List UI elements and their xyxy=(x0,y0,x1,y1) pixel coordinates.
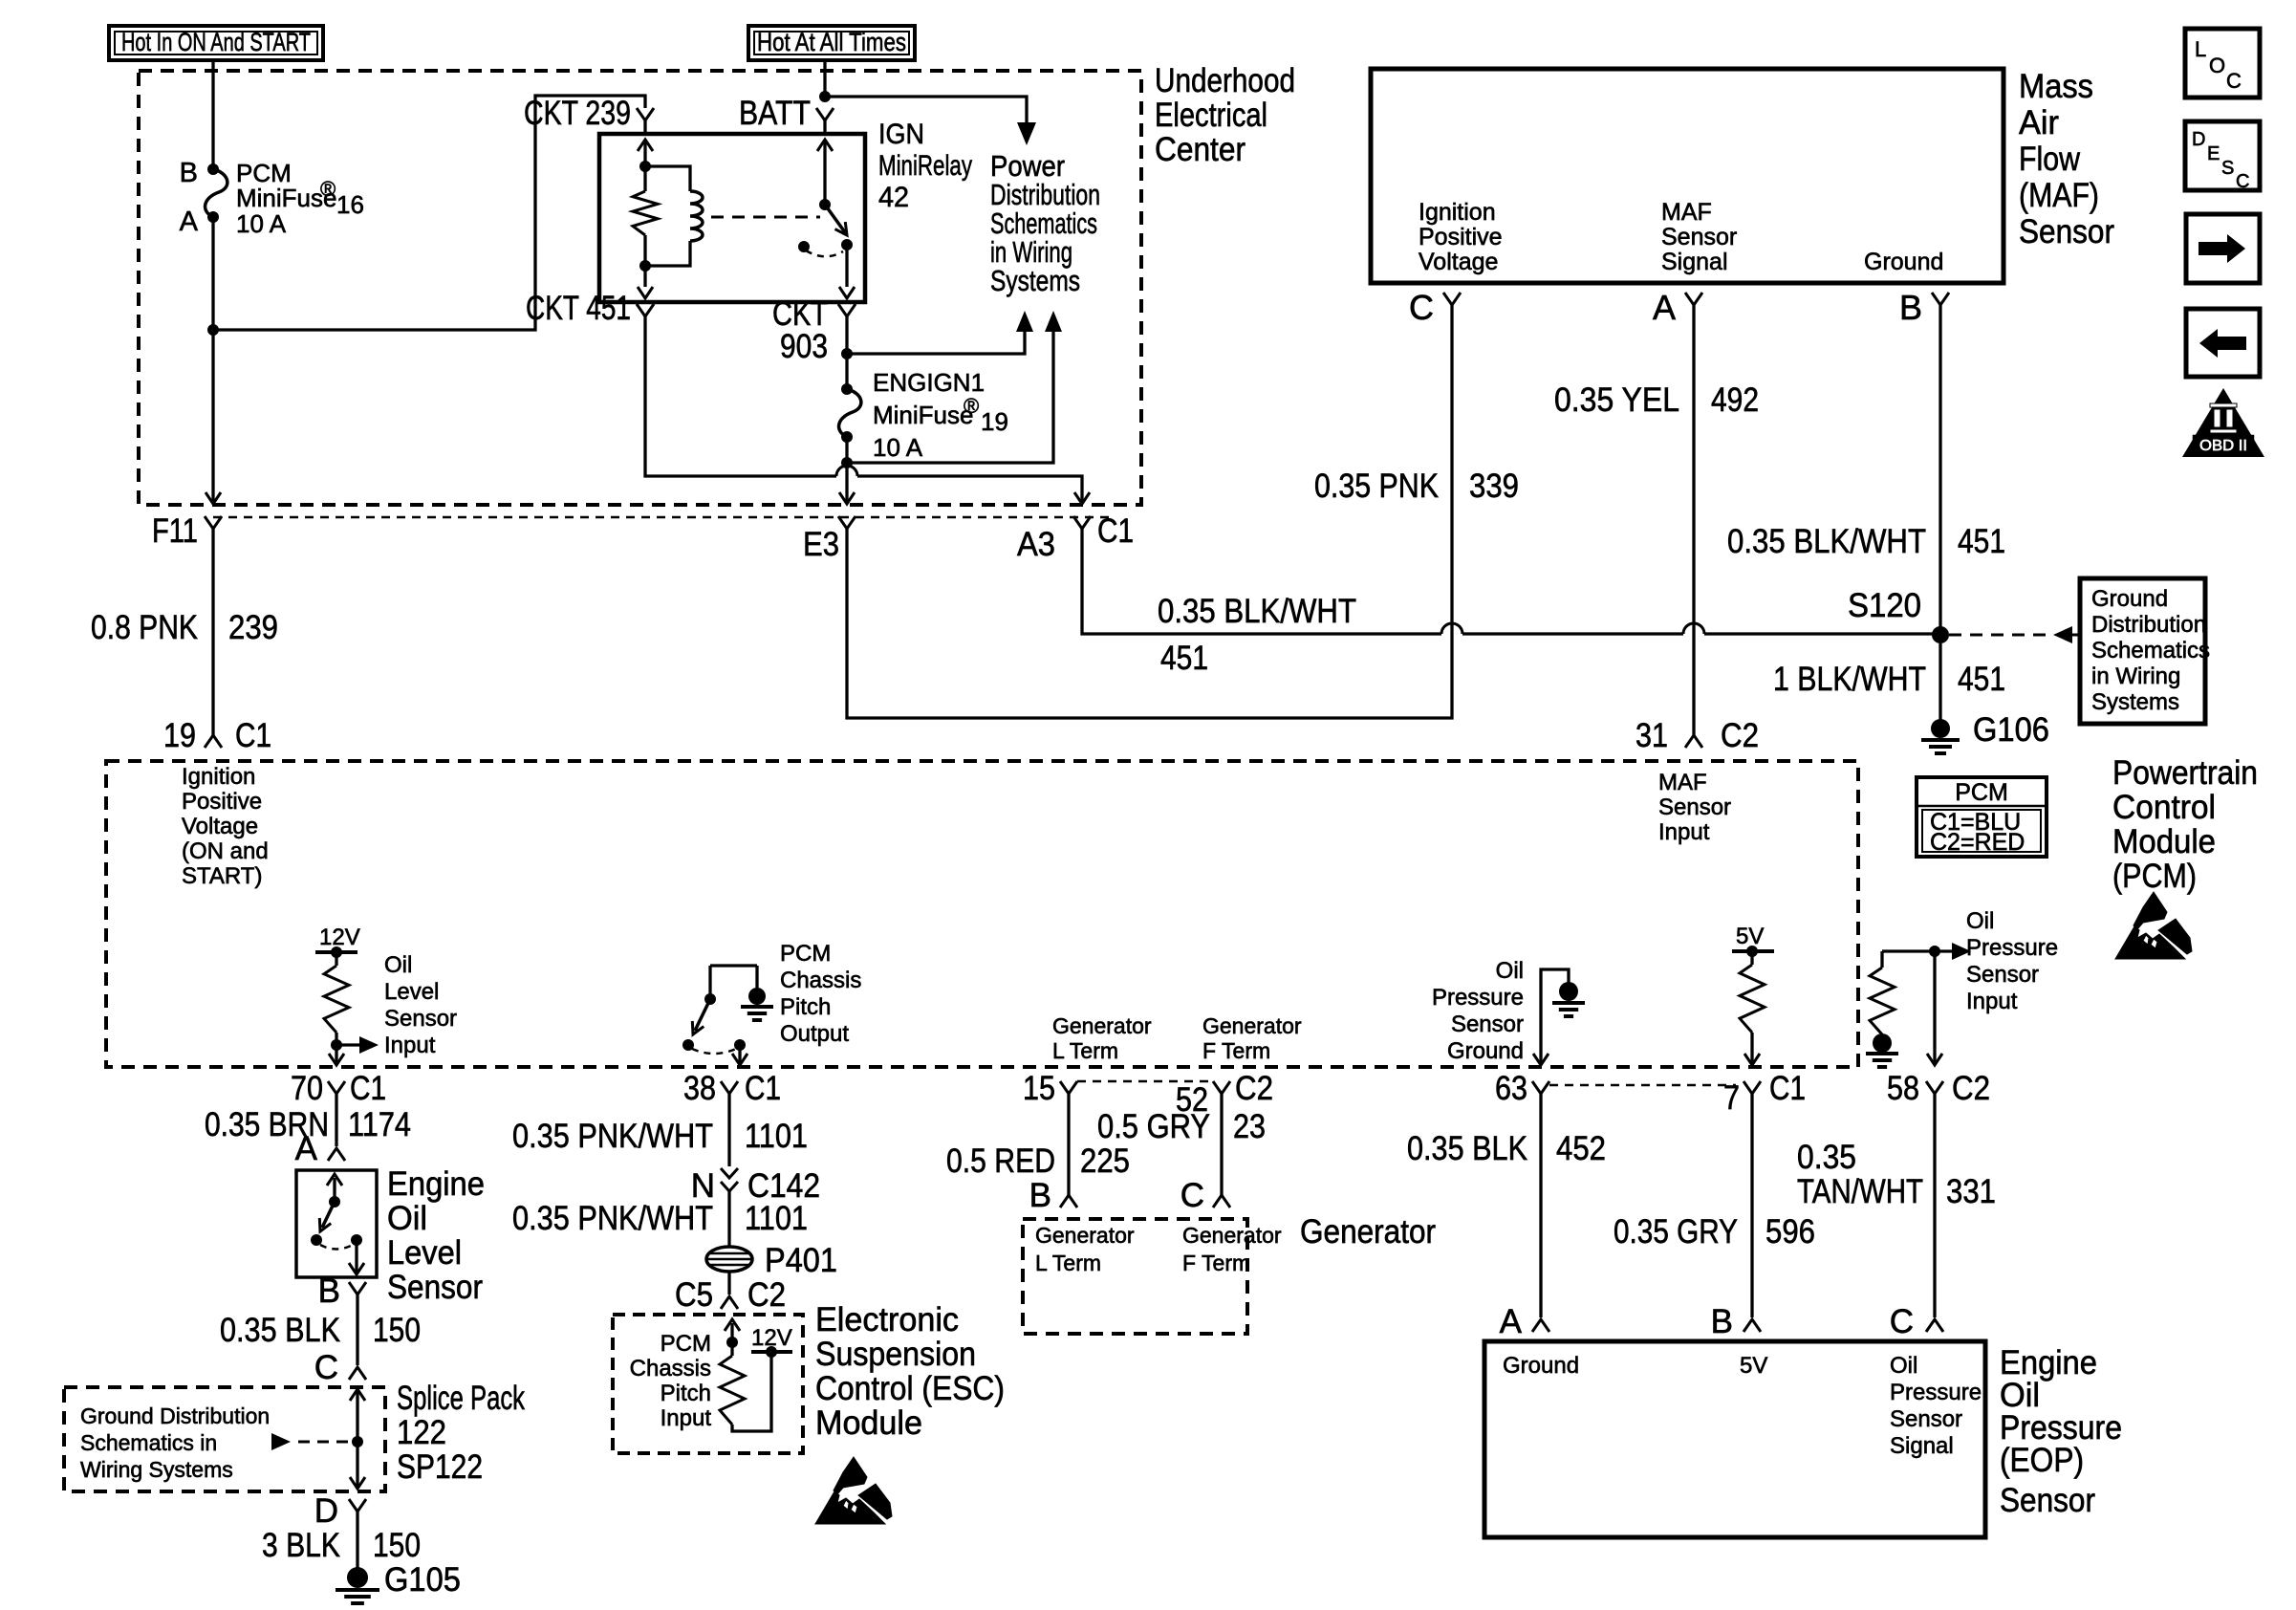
MAF terminal C Y xyxy=(1443,293,1461,305)
svg-text:S120: S120 xyxy=(1848,587,1921,624)
wire: MAF A yellow wire down to PCM pin 31 xyxy=(1692,317,1695,735)
oil pressure input ground dot xyxy=(1873,1033,1892,1053)
svg-text:12V: 12V xyxy=(751,1325,792,1351)
svg-text:3 BLK: 3 BLK xyxy=(262,1527,340,1564)
relay coil top dot xyxy=(639,161,651,172)
svg-text:225: 225 xyxy=(1080,1142,1130,1180)
esc input resistor xyxy=(720,1356,745,1425)
MAF terminal A Y xyxy=(1685,293,1702,305)
svg-text:(MAF): (MAF) xyxy=(2019,177,2099,214)
svg-text:Control (ESC): Control (ESC) xyxy=(815,1370,1005,1407)
svg-text:P401: P401 xyxy=(765,1242,837,1279)
wire: down to E3 xyxy=(845,463,848,503)
junction dot on BATT feed xyxy=(819,91,831,102)
svg-text:Ground: Ground xyxy=(1864,249,1943,275)
pitch switch blade xyxy=(695,999,710,1031)
wire: branch to Power Distribution right arrow xyxy=(847,332,1053,463)
fuse F19 terminal dot A xyxy=(841,431,853,443)
oil level dashed travel arc xyxy=(320,1245,353,1250)
svg-text:Ground: Ground xyxy=(2091,586,2168,612)
icon OBD II triangle xyxy=(2182,388,2264,457)
svg-text:A: A xyxy=(1500,1303,1523,1340)
svg-text:Pressure: Pressure xyxy=(1890,1380,1982,1405)
svg-text:A: A xyxy=(295,1130,318,1167)
svg-text:70: 70 xyxy=(291,1070,323,1107)
svg-text:TAN/WHT: TAN/WHT xyxy=(1797,1173,1923,1210)
wire: junction to CKT 239 (up and over) xyxy=(213,96,645,330)
svg-text:1101: 1101 xyxy=(745,1118,808,1155)
wire pin70 to oil level sensor xyxy=(335,1107,337,1146)
svg-text:®: ® xyxy=(964,394,979,418)
svg-text:C1: C1 xyxy=(235,717,271,754)
oil level output wire xyxy=(355,1240,357,1273)
pin 15 Y xyxy=(1060,1081,1077,1094)
connector dashes 15-52 xyxy=(1077,1080,1213,1083)
filled arrow down to Power Distribution xyxy=(1017,122,1036,145)
svg-text:D: D xyxy=(314,1492,338,1530)
svg-text:Ground: Ground xyxy=(1503,1353,1579,1379)
svg-text:Generator: Generator xyxy=(1202,1013,1302,1038)
svg-text:B: B xyxy=(180,158,198,188)
svg-text:C1: C1 xyxy=(1769,1070,1806,1107)
svg-text:Center: Center xyxy=(1155,131,1245,168)
svg-text:Suspension: Suspension xyxy=(815,1336,976,1373)
PCM chassis pitch switch top link xyxy=(710,964,757,967)
svg-text:0.35 PNK: 0.35 PNK xyxy=(1314,468,1439,505)
svg-text:G106: G106 xyxy=(1973,711,2049,749)
oil level pullup resistor xyxy=(335,952,337,966)
svg-text:Chassis: Chassis xyxy=(630,1356,711,1382)
pin B lambda (eop) xyxy=(1744,1319,1761,1332)
ground G106 dot xyxy=(1931,719,1950,738)
pin C lambda (eop) xyxy=(1926,1319,1943,1332)
svg-text:903: 903 xyxy=(780,328,828,365)
wire pin63 to EOP A xyxy=(1539,1107,1542,1317)
svg-text:451: 451 xyxy=(1958,523,2005,560)
icon LOC box xyxy=(2185,29,2260,98)
MAF terminal B Y xyxy=(1932,293,1949,305)
svg-text:Sensor: Sensor xyxy=(387,1269,483,1306)
svg-text:Ground: Ground xyxy=(1447,1038,1524,1064)
svg-text:Electrical: Electrical xyxy=(1155,97,1267,134)
svg-text:A: A xyxy=(1653,288,1676,327)
wire: Hot At All Times feed xyxy=(823,60,826,97)
svg-text:Distribution: Distribution xyxy=(2091,612,2206,638)
splice dashed link xyxy=(298,1441,350,1444)
svg-text:451: 451 xyxy=(1958,661,2005,698)
svg-text:12V: 12V xyxy=(319,925,360,950)
pin C5 lambda xyxy=(721,1296,738,1309)
svg-text:1101: 1101 xyxy=(745,1200,808,1237)
svg-text:Ignition: Ignition xyxy=(182,764,255,790)
wire oil level B to C xyxy=(356,1306,358,1365)
svg-text:BATT: BATT xyxy=(739,95,811,132)
svg-text:63: 63 xyxy=(1495,1070,1527,1107)
svg-text:Ignition: Ignition xyxy=(1419,199,1496,226)
relay switch travel dashed arc xyxy=(806,250,843,256)
svg-text:MAF: MAF xyxy=(1661,199,1712,226)
svg-text:Pitch: Pitch xyxy=(661,1381,711,1406)
svg-text:L: L xyxy=(2195,37,2206,61)
relay switch blade xyxy=(825,205,845,232)
junction dot below fuse 19 xyxy=(841,457,853,468)
dashed stub into box xyxy=(2072,634,2080,637)
svg-text:C5: C5 xyxy=(675,1276,713,1314)
svg-text:239: 239 xyxy=(228,609,278,646)
svg-text:339: 339 xyxy=(1469,468,1519,505)
svg-text:Oil: Oil xyxy=(384,952,412,978)
svg-text:Schematics: Schematics xyxy=(2091,638,2210,664)
filled arrow up (right) xyxy=(1045,311,1062,332)
svg-text:7: 7 xyxy=(1723,1079,1740,1117)
svg-text:Generator: Generator xyxy=(1300,1213,1436,1251)
svg-text:451: 451 xyxy=(1160,640,1208,677)
grommet P401 xyxy=(706,1247,752,1272)
svg-text:Input: Input xyxy=(1966,989,2018,1014)
pitch dashed travel arc xyxy=(692,1049,736,1054)
wire: fuse 19 down to junction xyxy=(845,437,848,463)
svg-text:Input: Input xyxy=(384,1033,436,1058)
svg-text:Module: Module xyxy=(2112,823,2216,860)
svg-text:SP122: SP122 xyxy=(397,1448,483,1486)
svg-text:38: 38 xyxy=(683,1070,716,1107)
svg-text:L Term: L Term xyxy=(1035,1251,1101,1275)
oil level switch arrow up xyxy=(333,1178,336,1202)
svg-text:Oil: Oil xyxy=(1496,958,1524,984)
svg-text:Underhood: Underhood xyxy=(1155,62,1295,99)
svg-text:Splice Pack: Splice Pack xyxy=(397,1380,525,1417)
wire: CKT 903 down xyxy=(845,325,848,354)
svg-text:Engine: Engine xyxy=(387,1165,485,1203)
svg-text:C: C xyxy=(2236,171,2249,192)
svg-text:42: 42 xyxy=(878,182,909,213)
generator dashed box xyxy=(1023,1219,1247,1334)
pin A lambda (eop) xyxy=(1532,1319,1549,1332)
wire pitch output to pin 38 xyxy=(738,1045,741,1063)
arrowhead pin 63 xyxy=(1533,1054,1549,1065)
svg-text:16: 16 xyxy=(336,190,364,219)
esc input arrow up xyxy=(730,1323,733,1342)
relay winding coil arcs xyxy=(690,191,703,241)
splice link arrow xyxy=(271,1433,291,1450)
pitch contact dot right xyxy=(734,1039,746,1051)
svg-text:(ON and: (ON and xyxy=(182,838,269,864)
oil pressure ground symbol xyxy=(1552,1001,1585,1005)
svg-text:0.35 BLK/WHT: 0.35 BLK/WHT xyxy=(1727,523,1926,560)
svg-text:122: 122 xyxy=(397,1414,446,1451)
relay actuation dashed link xyxy=(711,216,820,219)
wire pin15 to gen B xyxy=(1067,1107,1070,1195)
svg-text:F Term: F Term xyxy=(1182,1251,1250,1275)
fuse F16 terminal A dot xyxy=(207,211,219,223)
wire D to G105 xyxy=(356,1526,358,1568)
svg-text:Sensor: Sensor xyxy=(2000,1482,2095,1519)
junction dot under fuse 16 xyxy=(207,324,219,336)
oil pressure input resistor xyxy=(1870,968,1895,1034)
svg-text:Electronic: Electronic xyxy=(815,1301,959,1338)
svg-text:PCM: PCM xyxy=(661,1331,711,1357)
svg-text:Pitch: Pitch xyxy=(780,994,831,1020)
filled arrow left at S120 link xyxy=(2053,626,2072,643)
svg-text:®: ® xyxy=(320,177,336,201)
svg-text:Generator: Generator xyxy=(1182,1223,1282,1248)
svg-text:C1: C1 xyxy=(350,1070,386,1107)
svg-text:CKT 239: CKT 239 xyxy=(524,95,631,132)
engine oil level sensor box xyxy=(296,1170,377,1277)
pitch contact dot left xyxy=(682,1039,694,1051)
svg-text:Signal: Signal xyxy=(1890,1433,1954,1459)
svg-text:Level: Level xyxy=(387,1234,462,1272)
filled arrow up (left) xyxy=(1016,311,1033,332)
svg-text:Ground Distribution: Ground Distribution xyxy=(80,1403,270,1428)
ESD sensitivity logo (ESC) xyxy=(815,1457,892,1524)
relay 42 box xyxy=(599,134,865,302)
arrowhead at A3 xyxy=(1074,492,1090,504)
terminal CKT 903 connector Y xyxy=(838,304,856,316)
svg-text:Control: Control xyxy=(2112,789,2216,826)
svg-text:E3: E3 xyxy=(803,526,839,563)
pin 31 lambda xyxy=(1685,735,1702,748)
5V supply bar xyxy=(1732,949,1774,953)
svg-text:START): START) xyxy=(182,863,262,889)
pin 63 Y xyxy=(1532,1081,1549,1094)
svg-text:MAF: MAF xyxy=(1658,770,1707,795)
pin 52 Y xyxy=(1213,1081,1230,1094)
svg-text:0.8 PNK: 0.8 PNK xyxy=(91,609,198,646)
connector dashes 63-7 xyxy=(1549,1084,1736,1087)
relay resistor xyxy=(633,191,658,235)
relay switch pivot dot xyxy=(819,199,831,210)
svg-text:1174: 1174 xyxy=(348,1106,411,1143)
arrowhead pin 7 xyxy=(1744,1054,1760,1065)
svg-text:0.35 PNK/WHT: 0.35 PNK/WHT xyxy=(512,1200,713,1237)
svg-text:Sensor: Sensor xyxy=(1661,224,1737,250)
oil level contact dot right xyxy=(351,1234,362,1246)
ground G106 symbol xyxy=(1921,738,1960,742)
svg-text:Input: Input xyxy=(661,1405,712,1431)
pitch switch pivot dot xyxy=(704,993,716,1005)
svg-text:B: B xyxy=(1029,1177,1051,1214)
svg-text:492: 492 xyxy=(1711,381,1759,419)
svg-text:B: B xyxy=(1899,288,1922,327)
svg-text:0.35 BLK: 0.35 BLK xyxy=(220,1312,340,1349)
svg-text:596: 596 xyxy=(1765,1213,1815,1251)
svg-text:MiniRelay: MiniRelay xyxy=(878,150,972,182)
svg-text:0.35 PNK/WHT: 0.35 PNK/WHT xyxy=(512,1118,713,1155)
svg-text:10 A: 10 A xyxy=(873,433,923,462)
ground G105 dot xyxy=(347,1567,368,1588)
svg-text:ENGIGN1: ENGIGN1 xyxy=(873,368,985,397)
wire: 0.8 PNK 239 to PCM pin 19 xyxy=(211,535,214,735)
junction dot oil level xyxy=(331,1039,342,1051)
svg-text:C: C xyxy=(314,1349,338,1386)
svg-text:0.35: 0.35 xyxy=(1797,1139,1856,1176)
wire: ground 451 from A3 to S120 (with hops) xyxy=(1082,535,1441,634)
inline connector N C142 xyxy=(721,1168,738,1178)
svg-text:C: C xyxy=(1409,288,1434,327)
svg-text:331: 331 xyxy=(1946,1173,1996,1210)
svg-text:Level: Level xyxy=(384,979,439,1005)
svg-text:B: B xyxy=(318,1273,340,1310)
svg-text:Systems: Systems xyxy=(2091,689,2179,715)
svg-text:Generator: Generator xyxy=(1052,1013,1152,1038)
esc 12V bar xyxy=(751,1350,792,1354)
svg-text:Positive: Positive xyxy=(1419,224,1503,250)
Powertrain Control Module dashed boundary xyxy=(106,761,1858,1067)
pitch ground dot xyxy=(748,988,766,1005)
svg-text:Pressure: Pressure xyxy=(1432,985,1524,1011)
pin 19 lambda xyxy=(205,735,222,748)
svg-text:F11: F11 xyxy=(152,512,198,550)
terminal CKT 239 connector Y xyxy=(637,108,654,120)
svg-text:A: A xyxy=(180,207,199,237)
wire pin52 to gen C xyxy=(1220,1107,1223,1195)
wire: MAF C pink wire to E3 (via bottom run) xyxy=(847,317,1452,718)
wire: junction down to F11 xyxy=(211,330,214,503)
terminal CKT 451 connector Y xyxy=(637,304,654,316)
svg-text:C1: C1 xyxy=(745,1070,781,1107)
relay switch resting contact dot xyxy=(798,241,810,252)
svg-text:10 A: 10 A xyxy=(236,209,287,238)
Mass Air Flow sensor box xyxy=(1371,69,2004,283)
svg-text:B: B xyxy=(1711,1303,1733,1340)
pin 58 Y xyxy=(1926,1081,1943,1094)
svg-text:C1: C1 xyxy=(1097,512,1134,550)
svg-text:C: C xyxy=(1180,1177,1204,1214)
svg-text:150: 150 xyxy=(373,1312,421,1349)
svg-text:Oil: Oil xyxy=(387,1200,427,1237)
svg-text:Sensor: Sensor xyxy=(1966,962,2039,988)
oil pressure ground hook wire xyxy=(1541,969,1569,1063)
svg-text:Hot At All Times: Hot At All Times xyxy=(757,28,906,56)
svg-text:C2=RED: C2=RED xyxy=(1930,829,2025,856)
relay left lead lower arrow xyxy=(643,266,646,287)
relay left lead xyxy=(643,140,646,166)
svg-text:F Term: F Term xyxy=(1202,1038,1270,1063)
svg-text:452: 452 xyxy=(1556,1130,1606,1167)
junction dot CKT 903 xyxy=(841,348,853,359)
relay coil bottom dot xyxy=(639,260,651,272)
svg-text:A3: A3 xyxy=(1017,526,1055,563)
svg-text:Air: Air xyxy=(2019,104,2059,141)
svg-text:0.35 BLK/WHT: 0.35 BLK/WHT xyxy=(1158,593,1356,630)
svg-text:Sensor: Sensor xyxy=(1658,794,1731,820)
svg-text:5V: 5V xyxy=(1740,1353,1767,1379)
pin 7 Y xyxy=(1744,1081,1761,1094)
oil pressure sense arrow right xyxy=(1935,949,1952,952)
fuse F16 terminal B dot xyxy=(207,163,219,175)
icon forward arrow box xyxy=(2186,214,2260,283)
svg-text:19: 19 xyxy=(981,407,1008,436)
svg-text:C2: C2 xyxy=(747,1276,786,1314)
dashed wire: S120 to ground distribution xyxy=(1949,634,2051,637)
ground G105 symbol xyxy=(336,1588,379,1592)
svg-text:G105: G105 xyxy=(384,1561,461,1599)
svg-text:1 BLK/WHT: 1 BLK/WHT xyxy=(1773,661,1926,698)
ESC module dashed box xyxy=(613,1315,803,1453)
svg-text:in Wiring: in Wiring xyxy=(2091,664,2180,689)
pitch chassis ground symbol xyxy=(741,1005,773,1009)
relay winding connectors xyxy=(645,166,690,191)
svg-text:31: 31 xyxy=(1635,717,1668,754)
svg-text:PCM: PCM xyxy=(1955,779,2008,806)
svg-text:19: 19 xyxy=(163,717,196,754)
connector A3 Y xyxy=(1073,516,1091,529)
splice vertical wire xyxy=(356,1391,358,1488)
wire oil pressure input to pin 58 xyxy=(1933,951,1936,1063)
icon DESC box xyxy=(2185,121,2260,190)
wire pin58 to EOP C xyxy=(1933,1107,1936,1317)
wire: branch to Power Distribution left arrow xyxy=(847,332,1025,354)
svg-text:OBD II: OBD II xyxy=(2199,438,2247,454)
oil level switch blade xyxy=(322,1202,335,1228)
engine oil pressure sensor box xyxy=(1484,1341,1985,1537)
Underhood Electrical Center dashed boundary xyxy=(139,71,1141,505)
wire pin38 down xyxy=(727,1107,730,1166)
pin C lambda (gen) xyxy=(1213,1195,1230,1207)
svg-text:0.35 GRY: 0.35 GRY xyxy=(1614,1213,1738,1251)
pin B lambda (gen) xyxy=(1060,1195,1077,1207)
ESD sensitivity logo (PCM) xyxy=(2115,892,2192,959)
svg-text:Hot In ON And START: Hot In ON And START xyxy=(121,28,311,56)
svg-text:Schematics in: Schematics in xyxy=(80,1430,217,1455)
splice pack dashed box xyxy=(64,1387,385,1491)
pin A lambda (oil level) xyxy=(328,1148,345,1161)
PCM connector id box xyxy=(1917,777,2047,857)
svg-text:Positive: Positive xyxy=(182,789,262,815)
connector E3 Y xyxy=(838,516,856,529)
5V resistor xyxy=(1750,951,1753,965)
svg-text:Sensor: Sensor xyxy=(1451,1012,1524,1037)
svg-text:Input: Input xyxy=(1658,819,1710,845)
oil level contact dot left xyxy=(311,1234,322,1246)
oil level switch pivot dot xyxy=(329,1196,340,1207)
svg-text:0.35 BLK: 0.35 BLK xyxy=(1407,1130,1527,1167)
power feed box: Hot At All Times xyxy=(748,26,915,60)
svg-text:Oil: Oil xyxy=(1966,908,1994,934)
wire: fuse A down to junction xyxy=(211,217,214,330)
pin B Y (oil level) xyxy=(349,1282,366,1295)
arrowhead at E3 xyxy=(839,492,855,504)
terminal BATT connector Y xyxy=(816,108,834,120)
fuse F19 terminal dot B xyxy=(841,383,853,395)
pitch ground riser xyxy=(755,966,758,988)
wire oil level to pin 70 xyxy=(335,1045,337,1063)
svg-text:C: C xyxy=(2226,69,2242,93)
svg-text:C2: C2 xyxy=(1952,1070,1990,1107)
pin D Y xyxy=(349,1499,366,1512)
oil pressure input junction dot xyxy=(1929,946,1940,957)
esc bottom link xyxy=(732,1352,771,1431)
power feed box: Hot In ON And START xyxy=(109,26,323,60)
svg-text:IGN: IGN xyxy=(878,119,924,150)
svg-text:Pressure: Pressure xyxy=(1966,935,2058,961)
wire: branch to Power Distribution arrow xyxy=(825,97,1027,122)
esc input junction dot xyxy=(726,1337,738,1348)
svg-text:Module: Module xyxy=(815,1404,922,1442)
svg-text:Chassis: Chassis xyxy=(780,968,861,993)
wire pin7 to EOP B xyxy=(1750,1107,1753,1317)
icon back arrow box xyxy=(2186,309,2260,377)
svg-text:CKT 451: CKT 451 xyxy=(526,290,631,327)
wire resistor stubs xyxy=(643,166,646,191)
svg-text:Wiring Systems: Wiring Systems xyxy=(80,1457,233,1482)
wire C142 to P401 xyxy=(727,1191,730,1247)
svg-text:Systems: Systems xyxy=(990,264,1080,297)
splice S120 dot xyxy=(1932,626,1949,643)
svg-text:0.5 GRY: 0.5 GRY xyxy=(1097,1108,1210,1145)
wire: S120 down to G106 xyxy=(1939,643,1941,720)
